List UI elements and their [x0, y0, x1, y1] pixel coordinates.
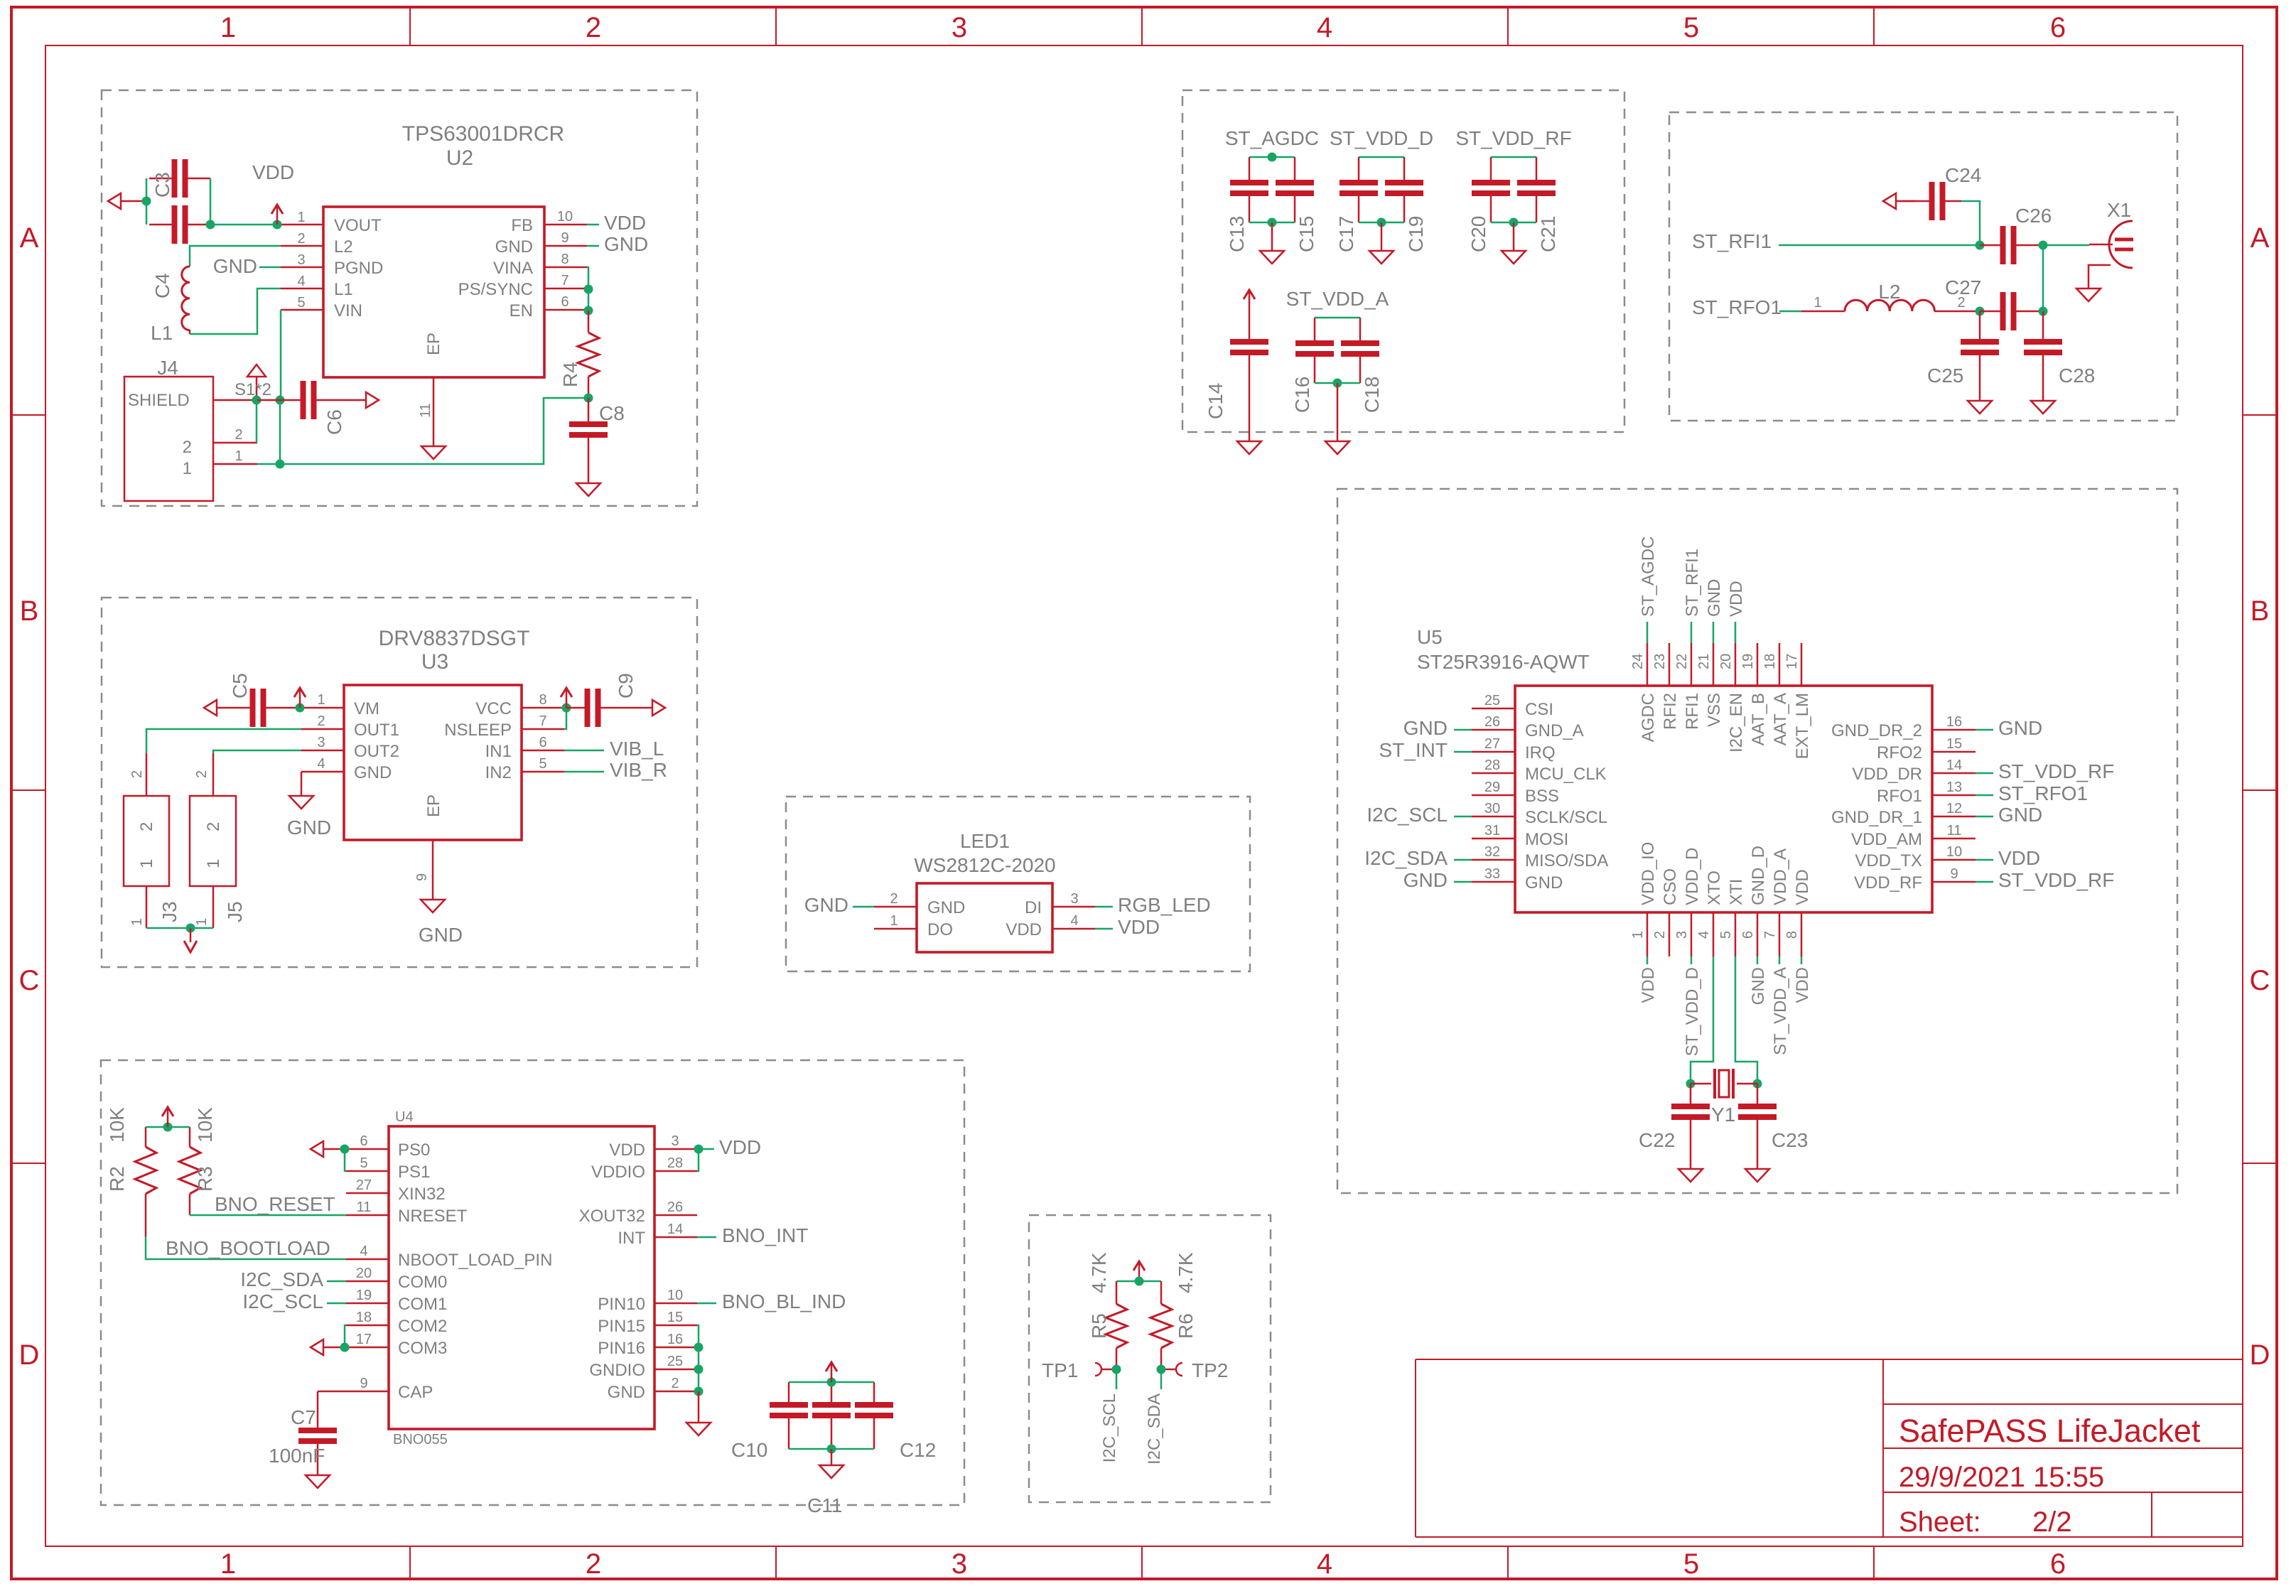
LED1 pin 1 DO: [874, 913, 953, 939]
svg-text:21: 21: [1696, 654, 1712, 669]
svg-text:1: 1: [204, 859, 223, 868]
svg-text:COM2: COM2: [398, 1317, 447, 1336]
svg-text:U2: U2: [446, 146, 473, 170]
junction U3 pin8 VCC: [562, 703, 571, 713]
U4 pin 18 COM2: [346, 1310, 447, 1336]
wire right cap bus: [210, 178, 212, 225]
svg-text:ST_AGDC: ST_AGDC: [1639, 537, 1658, 617]
U4 pin 10 PIN10: [598, 1288, 697, 1314]
capacitor C23: [1738, 1084, 1777, 1169]
net label I2C_SCL below TP1: [1100, 1393, 1119, 1462]
svg-text:1: 1: [297, 210, 305, 225]
junction PIN16 row: [694, 1343, 704, 1352]
svg-text:I2C_SDA: I2C_SDA: [1145, 1393, 1164, 1465]
U3 EP pin name: [424, 794, 443, 817]
R5 value label 4.7K: [1088, 1252, 1110, 1293]
svg-text:10: 10: [557, 209, 573, 225]
svg-text:I2C_EN: I2C_EN: [1727, 693, 1746, 753]
title text SafePASS LifeJacket: [1899, 1413, 2201, 1449]
junction pin7 node: [584, 285, 593, 294]
net label GND at U3 pin4: [287, 816, 331, 839]
U3 left pins 1-4: [301, 708, 344, 772]
svg-text:B: B: [20, 595, 39, 627]
net label ST_INT at U5 pin 27: [1379, 739, 1448, 761]
antenna X1: [2089, 221, 2133, 268]
svg-text:XTI: XTI: [1727, 879, 1746, 905]
R2 name label: [106, 1166, 128, 1192]
svg-text:4.7K: 4.7K: [1175, 1252, 1197, 1293]
U5 pin 1 VDD_IO: [1630, 842, 1658, 956]
svg-text:BNO_RESET: BNO_RESET: [215, 1193, 335, 1215]
U4 pin 2 GND: [608, 1376, 697, 1402]
svg-text:VDD_IO: VDD_IO: [1639, 842, 1658, 905]
svg-text:25: 25: [667, 1354, 683, 1369]
svg-text:BSS: BSS: [1525, 787, 1559, 806]
ground below C22: [1678, 1169, 1703, 1182]
svg-text:1: 1: [183, 459, 192, 478]
svg-text:RFI1: RFI1: [1683, 693, 1702, 730]
junction U4 pin3 VDD: [694, 1145, 704, 1154]
wire U2 pin5 VIN down: [280, 310, 282, 400]
svg-text:R3: R3: [194, 1166, 216, 1192]
svg-text:6: 6: [2050, 1548, 2066, 1580]
junction COM3: [340, 1343, 350, 1352]
U5 pin 21 VSS: [1696, 643, 1724, 727]
svg-text:C: C: [19, 965, 40, 996]
U4 name label: [395, 1109, 414, 1125]
net label GND at U5 pin 6: [1749, 967, 1768, 1005]
net label I2C_SCL at U4: [242, 1290, 323, 1312]
resistor R5: [1106, 1281, 1127, 1369]
J5 inside pin 1 label: [204, 859, 223, 868]
svg-text:18: 18: [356, 1310, 372, 1325]
C28 name label: [2059, 365, 2095, 387]
capacitor C7: [298, 1391, 346, 1475]
svg-text:25: 25: [1484, 693, 1500, 708]
wire R5 top to R6 top: [1116, 1280, 1161, 1283]
wire net VDD at U5 pin 20: [1735, 622, 1737, 643]
junction J3/J5 gnd: [186, 924, 195, 933]
wire net ST_RFI1 at U5 pin 22: [1691, 622, 1693, 643]
svg-text:C27: C27: [1945, 276, 1981, 298]
U4 pin 20 COM0: [346, 1266, 447, 1292]
C6 name label: [323, 409, 345, 435]
svg-text:GND: GND: [608, 1383, 645, 1402]
LED1 name label: [960, 830, 1010, 852]
U2 left pin names: [334, 216, 383, 320]
svg-text:FB: FB: [511, 216, 533, 235]
L2 pin 2 number: [1957, 295, 1965, 311]
svg-text:15: 15: [1946, 736, 1962, 752]
svg-text:EXT_LM: EXT_LM: [1793, 693, 1812, 759]
svg-text:8: 8: [1784, 931, 1800, 939]
capacitor C22: [1671, 1084, 1710, 1169]
R6 value label 4.7K: [1175, 1252, 1197, 1293]
capacitor C14: [1230, 290, 1268, 454]
svg-text:C16: C16: [1291, 377, 1313, 413]
inductor L2: [1801, 300, 1980, 311]
U5 pin 13 RFO1: [1877, 780, 1976, 806]
svg-text:BNO_BL_IND: BNO_BL_IND: [722, 1290, 846, 1312]
svg-text:C23: C23: [1772, 1129, 1808, 1151]
svg-text:33: 33: [1484, 866, 1500, 882]
svg-text:PGND: PGND: [334, 259, 383, 278]
ground below C17/C19: [1369, 222, 1394, 264]
junction GND row: [694, 1387, 704, 1396]
svg-text:AGDC: AGDC: [1639, 693, 1658, 742]
svg-text:9: 9: [561, 230, 568, 246]
svg-text:7: 7: [539, 713, 546, 729]
wire COM3 to COM2: [345, 1325, 346, 1347]
IC U5 ST25R3916-AQWT box: [1515, 686, 1932, 912]
svg-text:2: 2: [586, 1548, 601, 1580]
capacitor C6: [257, 381, 366, 419]
X1 ground branch: [2076, 265, 2111, 301]
U5 pin 3 VDD_D: [1674, 848, 1702, 956]
svg-text:GND: GND: [1705, 579, 1724, 617]
power symbol VDD above pin1: [271, 205, 283, 225]
U3 EP pin 9: [414, 840, 433, 900]
net arrow at U4 COM3: [311, 1339, 345, 1355]
U5 pin 6 GND_D: [1740, 846, 1768, 956]
svg-text:VSS: VSS: [1705, 693, 1724, 727]
capacitor C10: [770, 1382, 808, 1449]
svg-text:OUT2: OUT2: [354, 742, 399, 761]
net label ST_VDD_RF at U5 pin 9: [1998, 869, 2114, 891]
svg-text:1: 1: [220, 1548, 236, 1580]
U5 pin 16 GND_DR_2: [1831, 714, 1976, 740]
net label GND at U5 pin 21: [1705, 579, 1724, 617]
gnd arrow below J3/J5: [184, 928, 197, 952]
R3 name label: [194, 1166, 216, 1192]
svg-text:C3: C3: [151, 172, 173, 198]
svg-text:VDD_D: VDD_D: [1683, 848, 1702, 905]
connector J5 box: [190, 796, 236, 886]
wire U3 pin4 GND down: [301, 772, 303, 796]
svg-text:VDD: VDD: [1006, 920, 1042, 939]
svg-text:ST_VDD_RF: ST_VDD_RF: [1998, 760, 2114, 782]
wire from R4 node to J4 pin1 net: [257, 398, 588, 464]
svg-text:DI: DI: [1025, 898, 1042, 917]
svg-text:R5: R5: [1088, 1313, 1110, 1339]
J4 pin 1: [183, 448, 257, 478]
svg-text:13: 13: [1946, 780, 1962, 795]
ground below C8: [576, 483, 600, 496]
LED1 pin 2 GND: [874, 891, 965, 917]
svg-text:3: 3: [952, 1548, 967, 1580]
svg-text:1: 1: [220, 12, 236, 43]
svg-text:X1: X1: [2107, 199, 2131, 221]
junction below R4: [584, 394, 593, 403]
ground at U3 pin4: [289, 796, 313, 809]
junction TP2/R6: [1157, 1365, 1166, 1374]
svg-text:GND: GND: [1998, 804, 2042, 826]
R2 value label 10K: [106, 1107, 128, 1143]
net label VIB_R: [610, 759, 667, 781]
svg-text:14: 14: [667, 1222, 683, 1237]
net label VDD at LED1: [1118, 916, 1160, 938]
net label GND at U5 pin 33: [1403, 869, 1448, 891]
capacitor C19: [1385, 157, 1423, 222]
svg-text:IRQ: IRQ: [1525, 743, 1556, 762]
net label ST_VDD_RF: [1455, 127, 1571, 149]
dashed box power supply block: [102, 90, 697, 506]
net label GND at U5 pin 12: [1998, 804, 2042, 826]
svg-text:SCLK/SCL: SCLK/SCL: [1525, 808, 1607, 827]
capacitor C8: [569, 398, 608, 483]
U5 name label: [1417, 626, 1443, 648]
net label GND at U2 pin9: [604, 233, 648, 255]
wire pin6 EN node: [587, 310, 588, 312]
svg-text:9: 9: [414, 873, 430, 881]
C9 name label: [615, 673, 637, 699]
resistor R2: [135, 1127, 156, 1236]
net label ST_VDD_D: [1330, 127, 1433, 149]
wire C4 row to U2 pin1: [210, 224, 281, 226]
svg-text:PS0: PS0: [398, 1141, 430, 1160]
svg-text:11: 11: [357, 1199, 372, 1215]
svg-text:AAT_B: AAT_B: [1749, 693, 1768, 745]
svg-text:VDD: VDD: [1639, 967, 1658, 1003]
svg-text:27: 27: [356, 1177, 372, 1193]
net label GND at LED1: [804, 894, 848, 916]
svg-text:C13: C13: [1226, 216, 1248, 252]
ground below C11: [819, 1449, 844, 1478]
wire net I2C_SCL at U5 pin 30: [1454, 816, 1472, 818]
svg-text:J3: J3: [158, 901, 180, 922]
net label I2C_SDA below TP2: [1145, 1393, 1164, 1465]
svg-text:ST_INT: ST_INT: [1379, 739, 1448, 761]
net label GND at U5 pin 26: [1403, 717, 1448, 739]
title date 29/9/2021 15:55: [1899, 1462, 2104, 1493]
svg-text:ST_RFO1: ST_RFO1: [1692, 296, 1782, 318]
svg-text:5: 5: [360, 1155, 367, 1171]
wire net ST_VDD_A top: [1315, 317, 1360, 319]
U5 pin 26 GND_A: [1472, 714, 1584, 740]
svg-text:PIN15: PIN15: [598, 1317, 645, 1336]
net label VDD at U2 pin10: [604, 212, 646, 234]
C12 name label: [900, 1439, 936, 1461]
net label ST_VDD_D at U5 pin 3: [1683, 967, 1702, 1056]
U5 pin 7 VDD_A: [1762, 848, 1790, 956]
svg-text:2: 2: [890, 891, 898, 907]
frame row ticks right: [2243, 415, 2277, 1163]
J4 name label: [157, 357, 178, 379]
wire U3 pin7 NSLEEP to VCC: [564, 708, 566, 729]
C11 name label: [807, 1494, 842, 1516]
svg-text:R6: R6: [1175, 1313, 1197, 1339]
svg-text:24: 24: [1630, 654, 1646, 669]
svg-text:2: 2: [194, 770, 210, 778]
svg-text:11: 11: [1947, 823, 1962, 839]
U3 value label DRV8837DSGT: [379, 627, 530, 650]
wire net ST_VDD_D top: [1359, 156, 1404, 158]
svg-text:C28: C28: [2059, 365, 2095, 387]
U3 left pin numbers: [317, 692, 325, 772]
svg-text:GNDIO: GNDIO: [589, 1361, 645, 1380]
C14 name label: [1204, 383, 1227, 419]
svg-text:C18: C18: [1361, 377, 1383, 413]
net label S1*2: [235, 380, 271, 399]
svg-text:GND: GND: [1998, 717, 2042, 739]
svg-text:VDD: VDD: [1727, 581, 1746, 617]
svg-text:3: 3: [1674, 931, 1690, 939]
svg-text:1: 1: [317, 692, 325, 708]
wire J3 pin1 to J5 pin1: [146, 927, 213, 929]
svg-text:XTO: XTO: [1705, 870, 1724, 905]
ground below C23: [1745, 1169, 1769, 1182]
wire net GND at U5 pin 33: [1454, 881, 1472, 883]
U4 pin 27 XIN32: [346, 1177, 446, 1204]
svg-text:XOUT32: XOUT32: [579, 1207, 645, 1226]
U2 EP pin 11: [418, 377, 433, 446]
crystal Y1: [1691, 1069, 1757, 1099]
R6 name label: [1175, 1313, 1197, 1339]
svg-text:L2: L2: [1878, 281, 1900, 303]
svg-text:COM0: COM0: [398, 1273, 447, 1292]
svg-text:XIN32: XIN32: [398, 1185, 446, 1204]
capacitor C18: [1341, 318, 1379, 383]
frame column ticks bottom: [410, 1546, 1874, 1579]
net label ST_RFI1: [1692, 230, 1772, 252]
U2 left pin numbers: [297, 210, 305, 311]
L1 name label: [151, 322, 173, 344]
wire R2 top to R3 top: [146, 1126, 190, 1128]
ground below C28: [2031, 401, 2055, 414]
svg-text:L1: L1: [151, 322, 173, 344]
U5 pin 4 XTO: [1696, 870, 1724, 956]
ground below C7: [306, 1475, 330, 1488]
U5 pin 30 SCLK/SCL: [1472, 801, 1607, 827]
wire I2C_SDA to U4 pin20: [327, 1280, 346, 1283]
U5 pin 11 VDD_AM: [1851, 823, 1976, 849]
svg-text:VDD_RF: VDD_RF: [1854, 873, 1922, 893]
wire U3 pin3 OUT2: [213, 750, 301, 753]
IC U3 DRV8837DSGT box: [344, 685, 522, 840]
svg-text:S1*2: S1*2: [235, 380, 271, 399]
capacitor C26: [1980, 226, 2043, 264]
svg-text:ST_AGDC: ST_AGDC: [1225, 127, 1319, 149]
svg-text:8: 8: [539, 692, 546, 708]
power symbol VDD above R2/R3: [162, 1107, 173, 1127]
svg-text:VDD: VDD: [1793, 869, 1812, 905]
svg-text:2: 2: [183, 438, 192, 457]
svg-text:5: 5: [297, 295, 305, 311]
svg-text:C17: C17: [1335, 216, 1357, 252]
C4 name label: [151, 273, 173, 298]
svg-text:17: 17: [1784, 654, 1800, 669]
svg-text:20: 20: [1718, 654, 1734, 669]
svg-text:VDD: VDD: [1793, 967, 1812, 1003]
svg-text:VIB_L: VIB_L: [610, 738, 664, 760]
svg-text:COM1: COM1: [398, 1295, 447, 1314]
wire net VDD at U5 pin 8: [1801, 956, 1803, 964]
svg-text:26: 26: [667, 1199, 683, 1215]
capacitor C24: [1902, 182, 1980, 245]
svg-text:VDD_A: VDD_A: [1771, 848, 1790, 905]
svg-text:C21: C21: [1537, 216, 1559, 252]
wire U4 pins 15/16/25/2 gnd bus: [697, 1325, 699, 1391]
svg-text:EP: EP: [424, 333, 443, 355]
svg-text:TP1: TP1: [1042, 1359, 1078, 1381]
dashed box antenna matching block: [1669, 112, 2177, 421]
net label GND at U5 pin 16: [1998, 717, 2042, 739]
net label ST_RFO1: [1692, 296, 1782, 318]
svg-text:8: 8: [561, 252, 568, 267]
net arrow left of C5: [204, 700, 217, 716]
wire net ST_VDD_D at U5 pin 3: [1691, 956, 1693, 964]
svg-text:C9: C9: [615, 673, 637, 699]
U4 pin 25 GNDIO: [589, 1354, 697, 1380]
junction crystal left: [1686, 1079, 1696, 1089]
svg-text:D: D: [19, 1339, 40, 1371]
power arrow S1*2 net: [247, 365, 266, 400]
J5 pin2 lead: [194, 753, 213, 796]
wire net GND at U5 pin 26: [1454, 729, 1472, 731]
svg-text:VDD: VDD: [609, 1141, 645, 1160]
junction crystal right: [1753, 1079, 1762, 1089]
svg-text:3: 3: [317, 735, 325, 750]
title block outline: [1416, 1359, 2243, 1537]
capacitor C15: [1276, 157, 1314, 222]
svg-text:I2C_SCL: I2C_SCL: [1367, 804, 1448, 826]
junction ST_VDD_A bottom: [1333, 379, 1342, 388]
Y1 name label: [1711, 1104, 1735, 1126]
wire net ST_VDD_A at U5 pin 7: [1779, 956, 1781, 964]
wire net ST_VDD_RF bottom: [1491, 222, 1536, 224]
svg-text:32: 32: [1484, 844, 1500, 860]
J3 inside pin 2 label: [137, 822, 156, 831]
wire net VDD at U5 pin 1: [1646, 956, 1649, 964]
svg-text:2/2: 2/2: [2032, 1506, 2072, 1538]
svg-text:VOUT: VOUT: [334, 216, 382, 235]
svg-text:I2C_SCL: I2C_SCL: [242, 1290, 323, 1312]
svg-text:2: 2: [1652, 931, 1668, 939]
svg-text:ST25R3916-AQWT: ST25R3916-AQWT: [1417, 651, 1590, 673]
svg-text:R2: R2: [106, 1166, 128, 1192]
svg-text:2: 2: [137, 822, 156, 831]
wire XTO U5 pin4 to crystal: [1691, 956, 1713, 1084]
U3 right pin names: [444, 699, 512, 782]
svg-text:U4: U4: [395, 1109, 414, 1125]
svg-text:ST_VDD_RF: ST_VDD_RF: [1455, 127, 1571, 149]
svg-text:10: 10: [1946, 844, 1962, 860]
svg-text:C8: C8: [599, 402, 625, 424]
U5 pin 19 AAT_B: [1740, 643, 1768, 745]
wire net GND at U5 pin 6: [1757, 956, 1759, 964]
C23 name label: [1772, 1129, 1808, 1151]
junction R2/R3 top: [163, 1123, 173, 1132]
LED1 pin 4 VDD: [1006, 913, 1095, 939]
wire I2C_SDA below TP2: [1160, 1369, 1163, 1389]
ground below C20/C21: [1502, 222, 1526, 264]
svg-text:MCU_CLK: MCU_CLK: [1525, 765, 1607, 784]
svg-text:10K: 10K: [194, 1107, 216, 1143]
J4 SHIELD pin: [128, 391, 257, 410]
svg-text:6: 6: [360, 1133, 367, 1149]
capacitor C17: [1340, 157, 1378, 222]
svg-text:I2C_SDA: I2C_SDA: [1364, 847, 1448, 869]
U4 pin 5 PS1: [346, 1155, 430, 1182]
net label VDD at U4 pin3: [719, 1136, 761, 1158]
C15 name label: [1295, 216, 1317, 252]
svg-text:19: 19: [356, 1288, 372, 1303]
wire VDD net pin10: [587, 224, 599, 226]
svg-text:ST_RFO1: ST_RFO1: [1998, 782, 2088, 804]
svg-text:GND: GND: [1525, 873, 1563, 893]
svg-text:4: 4: [1070, 913, 1078, 929]
junction GNDIO row: [694, 1365, 704, 1374]
